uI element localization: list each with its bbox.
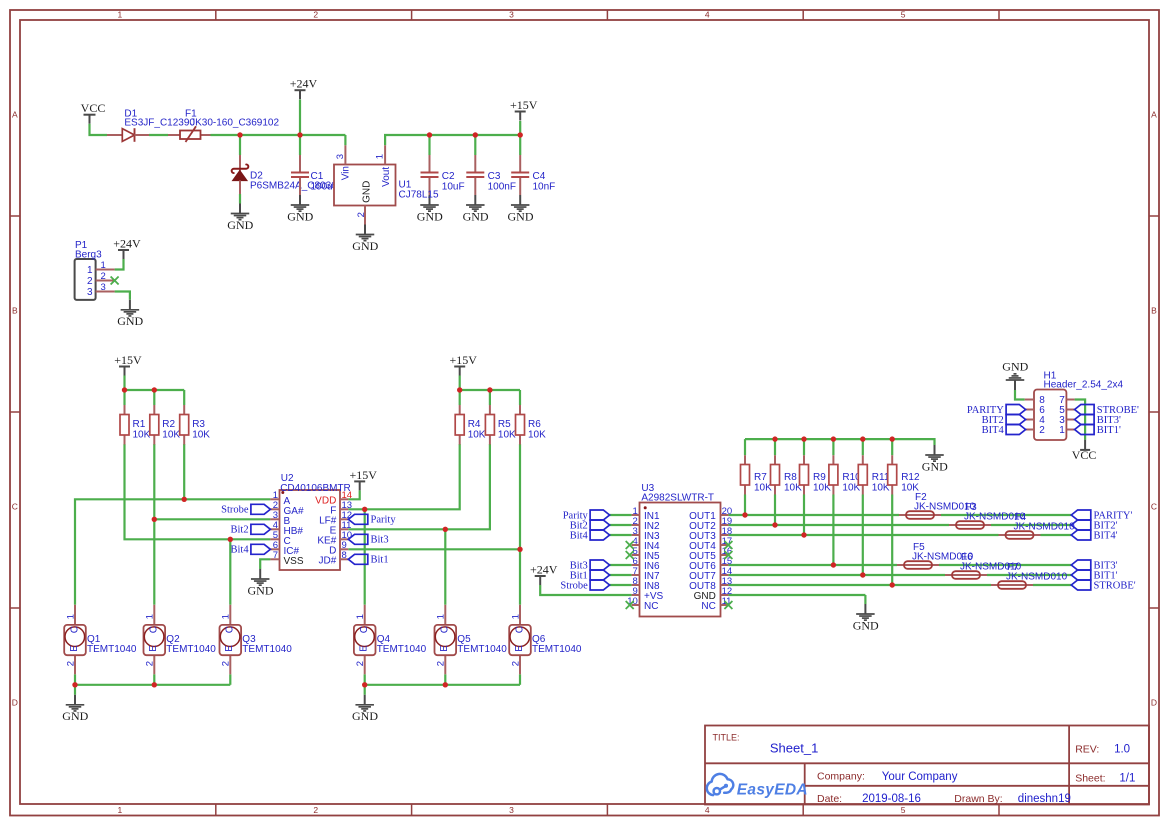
svg-text:GND: GND — [352, 239, 378, 253]
svg-text:1: 1 — [436, 614, 447, 619]
svg-text:NC: NC — [644, 601, 658, 612]
svg-text:Date:: Date: — [817, 793, 842, 805]
svg-text:GND: GND — [352, 709, 378, 723]
svg-text:3: 3 — [101, 282, 106, 293]
svg-text:STROBE': STROBE' — [1094, 580, 1136, 591]
svg-text:VSS: VSS — [284, 556, 304, 567]
svg-text:100nF: 100nF — [488, 182, 516, 193]
svg-text:E: E — [514, 645, 525, 652]
svg-text:dineshn19: dineshn19 — [1018, 793, 1071, 805]
svg-text:TEMT1040: TEMT1040 — [532, 644, 582, 655]
svg-text:2: 2 — [510, 661, 521, 666]
svg-text:3: 3 — [509, 10, 514, 20]
svg-text:Drawn By:: Drawn By: — [954, 793, 1002, 805]
svg-text:Sheet_1: Sheet_1 — [770, 741, 818, 756]
svg-text:10nF: 10nF — [533, 182, 556, 193]
svg-text:1: 1 — [355, 614, 366, 619]
svg-text:+24V: +24V — [290, 77, 318, 91]
svg-text:JK-NSMD010: JK-NSMD010 — [1006, 571, 1068, 582]
svg-text:Strobe: Strobe — [221, 505, 249, 516]
svg-text:VCC: VCC — [1072, 448, 1097, 462]
svg-text:E: E — [69, 645, 80, 652]
svg-text:Bit3: Bit3 — [371, 535, 389, 546]
svg-text:5: 5 — [901, 10, 906, 20]
svg-text:BIT4: BIT4 — [982, 425, 1005, 436]
svg-text:+15V: +15V — [510, 98, 538, 112]
svg-text:C: C — [12, 502, 18, 512]
svg-text:Header_2.54_2x4: Header_2.54_2x4 — [1044, 379, 1124, 390]
svg-text:C1: C1 — [311, 171, 324, 182]
svg-text:2: 2 — [313, 10, 318, 20]
svg-text:+24V: +24V — [530, 562, 558, 576]
svg-text:4: 4 — [705, 10, 710, 20]
svg-text:Vin: Vin — [340, 166, 351, 180]
svg-text:VCC: VCC — [81, 101, 106, 115]
svg-text:E: E — [224, 645, 235, 652]
svg-text:Bit2: Bit2 — [231, 525, 249, 536]
svg-text:CJ78L15: CJ78L15 — [399, 189, 439, 200]
svg-text:GND: GND — [362, 181, 373, 203]
svg-text:C: C — [440, 626, 451, 633]
svg-text:3: 3 — [509, 805, 514, 815]
svg-text:Vout: Vout — [381, 167, 392, 187]
svg-text:2: 2 — [1039, 425, 1045, 436]
svg-text:10K: 10K — [498, 430, 516, 441]
svg-text:BIT1': BIT1' — [1097, 425, 1121, 436]
svg-text:1: 1 — [101, 260, 106, 271]
svg-text:E: E — [148, 645, 159, 652]
svg-text:3: 3 — [335, 154, 346, 159]
svg-text:NC: NC — [701, 601, 715, 612]
svg-text:GND: GND — [117, 314, 143, 328]
svg-text:GND: GND — [417, 209, 443, 223]
svg-text:BIT4': BIT4' — [1094, 530, 1118, 541]
svg-text:C: C — [359, 626, 370, 633]
svg-text:1: 1 — [510, 614, 521, 619]
svg-text:GND: GND — [287, 209, 313, 223]
svg-text:TEMT1040: TEMT1040 — [377, 644, 427, 655]
svg-text:C3: C3 — [488, 171, 501, 182]
svg-text:R6: R6 — [528, 419, 541, 430]
svg-text:2: 2 — [87, 276, 93, 287]
svg-text:5: 5 — [901, 805, 906, 815]
svg-text:2019-08-16: 2019-08-16 — [862, 793, 921, 805]
svg-text:+24V: +24V — [113, 236, 141, 250]
svg-text:C: C — [149, 626, 160, 633]
svg-text:11: 11 — [722, 596, 732, 607]
svg-text:1/1: 1/1 — [1119, 773, 1135, 785]
svg-text:B: B — [1151, 306, 1157, 316]
svg-text:C2: C2 — [442, 171, 455, 182]
svg-text:Strobe: Strobe — [560, 580, 588, 591]
svg-text:E: E — [359, 645, 370, 652]
svg-text:10K: 10K — [754, 483, 772, 494]
svg-text:Sheet:: Sheet: — [1075, 772, 1105, 784]
svg-text:1: 1 — [145, 614, 156, 619]
svg-text:EasyEDA: EasyEDA — [737, 782, 808, 799]
svg-text:10uF: 10uF — [442, 182, 465, 193]
svg-text:TITLE:: TITLE: — [713, 733, 740, 743]
svg-text:+15V: +15V — [349, 468, 377, 482]
svg-text:R2: R2 — [162, 419, 175, 430]
svg-text:2: 2 — [356, 212, 367, 217]
svg-text:A: A — [12, 110, 18, 120]
svg-text:D: D — [1151, 698, 1157, 708]
svg-text:1: 1 — [118, 805, 123, 815]
svg-text:R5: R5 — [498, 419, 511, 430]
svg-text:2: 2 — [65, 661, 76, 666]
svg-text:CD40106BMTR: CD40106BMTR — [280, 483, 351, 494]
svg-text:REV:: REV: — [1075, 744, 1099, 756]
svg-text:JD#: JD# — [319, 556, 337, 567]
svg-text:C: C — [514, 626, 525, 633]
svg-text:C4: C4 — [533, 171, 546, 182]
svg-text:1: 1 — [87, 265, 93, 276]
svg-text:GND: GND — [463, 209, 489, 223]
svg-text:2: 2 — [221, 661, 232, 666]
svg-text:2: 2 — [145, 661, 156, 666]
svg-text:4: 4 — [705, 805, 710, 815]
svg-text:TEMT1040: TEMT1040 — [87, 644, 137, 655]
svg-text:A: A — [1151, 110, 1157, 120]
svg-text:2: 2 — [436, 661, 447, 666]
svg-text:1: 1 — [1059, 425, 1065, 436]
svg-text:2: 2 — [355, 661, 366, 666]
svg-text:E: E — [439, 645, 450, 652]
svg-text:R8: R8 — [784, 472, 797, 483]
svg-text:B: B — [12, 306, 18, 316]
svg-text:+15V: +15V — [114, 353, 142, 367]
svg-text:TEMT1040: TEMT1040 — [457, 644, 507, 655]
svg-text:2: 2 — [101, 271, 106, 282]
svg-text:A2982SLWTR-T: A2982SLWTR-T — [641, 493, 714, 504]
svg-text:10K: 10K — [192, 430, 210, 441]
svg-text:1: 1 — [65, 614, 76, 619]
svg-text:GND: GND — [62, 709, 88, 723]
svg-text:1: 1 — [374, 154, 385, 159]
svg-text:1.0: 1.0 — [1114, 744, 1130, 756]
svg-text:GND: GND — [853, 618, 879, 632]
svg-text:10K: 10K — [133, 430, 151, 441]
svg-text:1: 1 — [118, 10, 123, 20]
svg-text:JK30-160_C369102: JK30-160_C369102 — [190, 118, 279, 129]
svg-text:C: C — [69, 626, 80, 633]
svg-text:7: 7 — [273, 550, 278, 561]
svg-text:R9: R9 — [813, 472, 826, 483]
svg-text:Bit1: Bit1 — [371, 555, 389, 566]
svg-text:2: 2 — [313, 805, 318, 815]
svg-text:Bit4: Bit4 — [231, 545, 250, 556]
svg-text:Bit4: Bit4 — [570, 530, 589, 541]
svg-text:+15V: +15V — [449, 353, 477, 367]
svg-text:C: C — [1151, 502, 1157, 512]
svg-text:TEMT1040: TEMT1040 — [242, 644, 292, 655]
svg-text:GND: GND — [508, 209, 534, 223]
svg-text:R4: R4 — [468, 419, 481, 430]
svg-text:10K: 10K — [162, 430, 180, 441]
svg-text:GND: GND — [227, 218, 253, 232]
svg-text:R12: R12 — [901, 472, 920, 483]
svg-text:Berg3: Berg3 — [75, 250, 102, 261]
svg-text:Parity: Parity — [371, 515, 397, 526]
svg-text:GND: GND — [922, 459, 948, 473]
svg-text:D: D — [12, 698, 18, 708]
svg-text:10K: 10K — [468, 430, 486, 441]
svg-text:1: 1 — [221, 614, 232, 619]
svg-text:C: C — [225, 626, 236, 633]
svg-text:3: 3 — [87, 287, 93, 298]
svg-text:R7: R7 — [754, 472, 767, 483]
svg-text:R3: R3 — [192, 419, 205, 430]
svg-text:GND: GND — [248, 583, 274, 597]
svg-text:Your Company: Your Company — [882, 771, 958, 783]
svg-text:TEMT1040: TEMT1040 — [166, 644, 216, 655]
svg-text:R1: R1 — [133, 419, 146, 430]
svg-text:GND: GND — [1002, 360, 1028, 374]
svg-text:Company:: Company: — [817, 770, 865, 782]
svg-text:10K: 10K — [528, 430, 546, 441]
svg-text:JK-NSMD010: JK-NSMD010 — [1014, 521, 1076, 532]
svg-text:8: 8 — [342, 550, 347, 561]
